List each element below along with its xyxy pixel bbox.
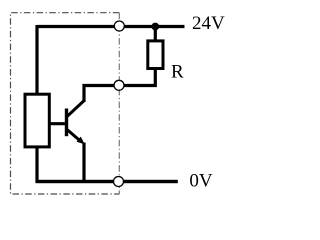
junction dot on 24V rail <box>151 23 159 31</box>
transistor Q1 (NPN, open-collector output) <box>67 101 85 145</box>
terminal 2 (output pin) <box>114 80 124 90</box>
wire: base connection from sensor block to Q1 <box>50 122 67 125</box>
wire: +24V rail (top horizontal) <box>37 25 185 28</box>
svg-text:R: R <box>171 62 184 83</box>
wire: 0V rail (bottom horizontal) continuation <box>37 180 178 183</box>
resistor R (pull-up) <box>148 41 163 69</box>
wire: output node to resistor bottom <box>114 69 155 86</box>
wire: 24V rail down to resistor top <box>154 27 157 42</box>
svg-text:0V: 0V <box>189 171 213 192</box>
interface line (vertical dash-dot through terminals) <box>118 13 120 194</box>
wire: emitter down to 0V rail <box>82 143 85 183</box>
terminal 1 (24V pin) <box>114 21 124 31</box>
wire: left vertical from top rail to sensor block <box>35 25 38 94</box>
sensor enclosure boundary (dash-dot box) <box>11 13 120 194</box>
wire: collector up to output node <box>84 86 114 103</box>
terminal 3 (0V pin) <box>114 177 124 187</box>
wire: sensor block bottom to 0V rail <box>37 147 178 182</box>
sensor output block (rectangle) <box>25 94 49 147</box>
svg-text:24V: 24V <box>192 13 225 34</box>
